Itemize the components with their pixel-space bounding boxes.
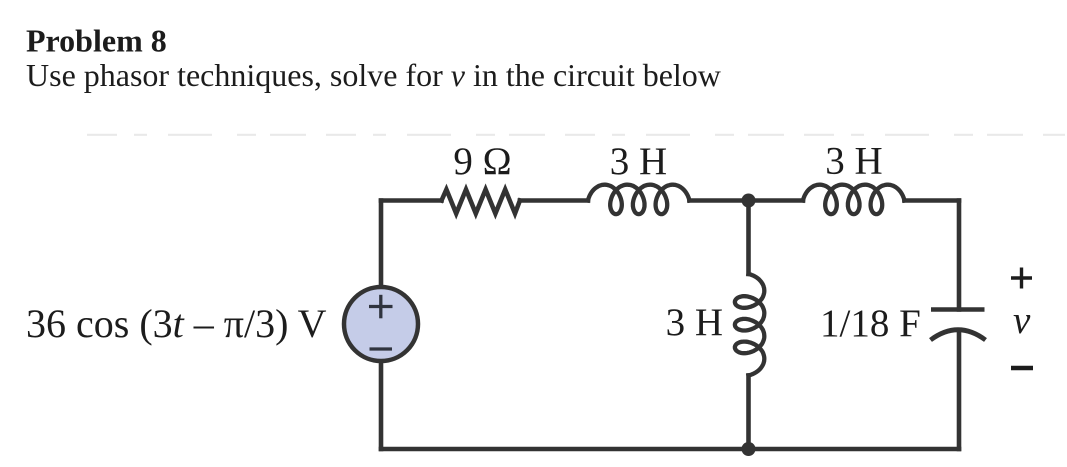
wire left vertical lower (source bottom lead) [379, 360, 384, 449]
node A junction dot [742, 194, 756, 208]
wire middle branch lower (L3 to node B) [746, 375, 751, 449]
inductor L3 3 H vertical coil [735, 274, 764, 375]
wire right vertical upper (to capacitor) [957, 201, 962, 310]
wire: inductor L1 to node A [689, 198, 748, 203]
inductor L2 3 H coil [803, 185, 904, 214]
wire: inductor L2 to top-right corner [904, 198, 959, 203]
svg-text:3 H: 3 H [610, 140, 667, 183]
wire top: source corner to resistor [381, 198, 442, 203]
inductor L1 3 H coil [588, 185, 689, 214]
resistor R 9 ohm zigzag [442, 190, 520, 214]
wire: node A to inductor L2 [749, 198, 804, 203]
wire: resistor to inductor L1 [520, 198, 588, 203]
faint artifact line [87, 134, 1065, 136]
label output minus sign [1011, 366, 1033, 371]
wire middle branch upper (node A down to L3) [746, 201, 751, 275]
voltage source plus sign [369, 295, 393, 319]
node B junction dot [742, 442, 756, 456]
svg-text:Use phasor techniques, solve f: Use phasor techniques, solve for v in th… [26, 57, 721, 93]
svg-text:3 H: 3 H [666, 301, 723, 344]
svg-text:v: v [1013, 299, 1031, 342]
svg-text:1/18 F: 1/18 F [820, 302, 921, 345]
svg-text:36 cos (3t – π/3) V: 36 cos (3t – π/3) V [26, 301, 327, 346]
voltage source VS circle [344, 287, 418, 361]
wire right vertical lower (capacitor to bottom) [957, 330, 962, 449]
wire bottom horizontal [381, 447, 959, 452]
voltage source minus sign [370, 347, 393, 350]
capacitor C bottom curved plate [931, 330, 986, 340]
svg-text:3 H: 3 H [825, 140, 882, 183]
capacitor C top plate [931, 307, 985, 312]
wire top-left vertical (source top lead) [379, 201, 384, 289]
svg-text:Problem 8: Problem 8 [26, 22, 167, 58]
svg-text:9 Ω: 9 Ω [453, 140, 511, 183]
label output plus sign [1011, 268, 1032, 289]
